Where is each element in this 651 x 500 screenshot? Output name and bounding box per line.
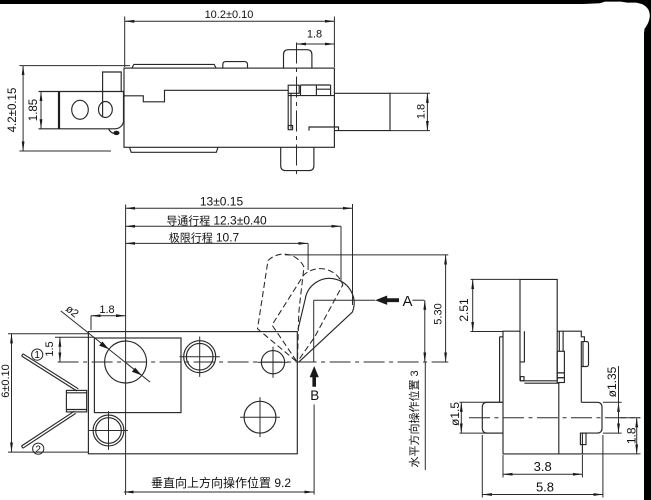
centerline of posts	[296, 43, 298, 178]
inner block	[94, 338, 181, 413]
body outline	[88, 332, 297, 454]
lever dashed free position	[258, 254, 305, 361]
dim 13±0.15	[126, 195, 353, 306]
dim phi1.35	[603, 366, 622, 433]
dim 1.8 end view	[585, 418, 641, 454]
svg-text:10.2±0.10: 10.2±0.10	[205, 9, 254, 21]
dim 12.3±0.40	[126, 214, 341, 281]
lever hole 1	[72, 100, 89, 119]
horizontal centerline	[469, 417, 640, 419]
left pin	[482, 402, 503, 433]
svg-text:A: A	[403, 293, 413, 310]
terminal 2 label	[33, 443, 44, 455]
dim 1.8 top	[297, 29, 335, 45]
body inner step / notch	[124, 90, 288, 102]
dim 3.8	[503, 455, 582, 478]
svg-text:1.8: 1.8	[307, 29, 322, 41]
dim 2.51	[457, 279, 520, 331]
slot bottom	[520, 377, 559, 384]
horizontal centerline	[58, 361, 449, 363]
phi2 leader	[61, 303, 150, 382]
svg-text:5.30: 5.30	[433, 303, 445, 324]
step on arm underside	[309, 127, 339, 131]
A level line	[314, 300, 376, 362]
svg-text:ø1.35: ø1.35	[605, 366, 619, 397]
svg-text:6±0.10: 6±0.10	[0, 364, 12, 398]
terminal arm extending right	[334, 93, 390, 130]
dim 5.8	[482, 435, 603, 498]
svg-text:1.8: 1.8	[99, 304, 114, 316]
bottom strip	[130, 147, 219, 152]
left wall	[500, 331, 520, 454]
svg-text:垂直向上方向操作位置 9.2: 垂直向上方向操作位置 9.2	[151, 475, 291, 490]
terminal block	[66, 390, 86, 412]
svg-text:4.2±0.15: 4.2±0.15	[7, 88, 19, 133]
step block above lever	[103, 72, 122, 118]
svg-text:5.8: 5.8	[536, 480, 554, 495]
svg-text:1.5: 1.5	[44, 341, 56, 356]
vertical reference line through plunger	[125, 205, 127, 496]
dim 6±0.10	[0, 334, 88, 452]
top rounded bump	[223, 62, 248, 69]
boss circle (double) upper	[180, 337, 220, 377]
right wall	[557, 331, 584, 402]
dim 3 (horizontal operating position)	[407, 300, 425, 470]
body below right pin	[580, 433, 586, 454]
dim 1.8 right	[390, 93, 430, 130]
plunger	[520, 279, 557, 380]
svg-text:1.85: 1.85	[28, 99, 40, 121]
lever clamp thick edge	[58, 92, 60, 129]
terminal 2 wire	[22, 411, 76, 448]
plunger hole (phi 2)	[105, 341, 147, 383]
svg-text:1: 1	[34, 350, 40, 361]
lever solid position	[298, 278, 354, 362]
dim 4.2±0.15	[7, 66, 130, 151]
svg-text:1.8: 1.8	[416, 104, 428, 119]
contact area small rect A	[288, 85, 299, 93]
left wall inner ledge	[520, 331, 524, 362]
right latch tab	[581, 342, 588, 367]
terminal 1 wire	[22, 354, 79, 391]
lever top extension line	[285, 254, 448, 256]
svg-text:1.8: 1.8	[625, 427, 639, 444]
inner contact verticals	[288, 93, 292, 129]
body outline	[124, 68, 334, 147]
rivet blob under lever end	[109, 129, 120, 135]
hole circle lower middle	[240, 397, 280, 437]
svg-text:B: B	[310, 388, 319, 403]
dim phi1.5	[448, 402, 503, 433]
dim 10.7	[126, 230, 309, 270]
svg-text:13±0.15: 13±0.15	[200, 195, 244, 209]
lever hole 2 with slot	[99, 102, 113, 118]
dim 10.2±0.10	[125, 9, 335, 67]
plunger side latch details	[557, 331, 564, 382]
terminal 1 label	[32, 349, 43, 361]
svg-text:ø1.5: ø1.5	[448, 402, 462, 426]
svg-text:水平方向操作位置 3: 水平方向操作位置 3	[407, 370, 421, 467]
lever arm (left)	[39, 92, 124, 129]
bottom post	[281, 147, 314, 170]
dim 1.8 plan	[91, 304, 126, 330]
arrow A	[375, 293, 424, 310]
boss circle (double) lower-left	[89, 411, 128, 450]
svg-text:2.51: 2.51	[457, 298, 471, 322]
svg-text:导通行程 12.3±0.40: 导通行程 12.3±0.40	[166, 214, 267, 228]
svg-text:3.8: 3.8	[534, 459, 552, 474]
arrow B	[310, 366, 320, 403]
top raised strip	[132, 64, 216, 68]
pivot circle	[257, 347, 288, 378]
dim 1.5	[44, 337, 95, 362]
centre parting line	[558, 383, 560, 454]
dim 5.30	[433, 255, 446, 362]
contact area lines	[288, 85, 334, 96]
svg-text:极限行程 10.7: 极限行程 10.7	[169, 230, 240, 244]
body bottom	[503, 453, 585, 455]
svg-text:2: 2	[35, 444, 41, 455]
dim 1.85	[28, 92, 41, 129]
lever dashed mid position	[272, 269, 343, 361]
dim 9.2 (vertical-up operating position)	[124, 405, 314, 495]
right pin	[581, 402, 602, 433]
top post	[284, 50, 312, 68]
